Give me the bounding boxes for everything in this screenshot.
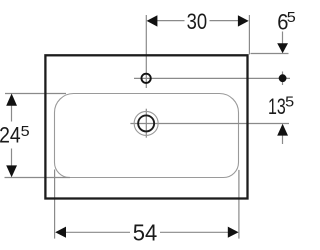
svg-text:5: 5 [287, 9, 296, 26]
svg-text:30: 30 [187, 9, 208, 34]
svg-text:24: 24 [0, 123, 21, 148]
svg-text:54: 54 [133, 220, 158, 246]
svg-text:5: 5 [21, 123, 30, 140]
svg-text:5: 5 [285, 94, 294, 111]
svg-text:13: 13 [268, 94, 286, 119]
